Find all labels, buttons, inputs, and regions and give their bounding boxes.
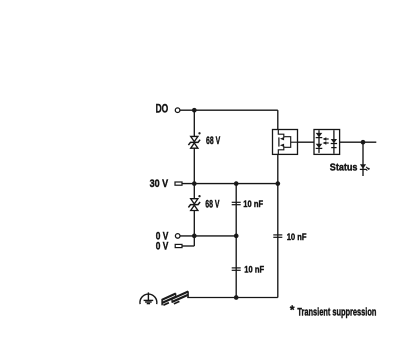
- svg-text:0 V: 0 V: [156, 240, 169, 252]
- optocoupler box: [314, 130, 340, 155]
- status LED: [360, 164, 370, 170]
- terminal 0V upper (open circle): [175, 234, 180, 239]
- junction 0V x left vertical: [192, 234, 197, 239]
- junction 30V x left vertical: [192, 181, 197, 186]
- svg-text:68 V: 68 V: [206, 135, 221, 147]
- wire status vertical: [362, 142, 364, 176]
- svg-text:Status: Status: [330, 162, 358, 173]
- asterisk marker upper TVS: [198, 132, 200, 134]
- wire 0V upper horizontal: [180, 235, 236, 237]
- TVS suppressor diode 68V upper: [188, 136, 200, 148]
- junction bottom x middle vertical: [234, 295, 239, 300]
- wire DO corner down to switch: [277, 110, 279, 129]
- earth ground symbol: [140, 292, 157, 304]
- wire bottom horizontal: [187, 297, 278, 299]
- wire middle vertical 30V to bottom: [235, 184, 237, 298]
- capacitor C1 plates: [232, 202, 241, 204]
- junction 30V x middle vertical: [234, 181, 239, 186]
- wire left vertical DO to 0V: [193, 110, 195, 246]
- wire 30V horizontal: [182, 183, 278, 185]
- junction 30V x right vertical: [275, 181, 280, 186]
- svg-text:68 V: 68 V: [205, 198, 220, 210]
- svg-text:30 V: 30 V: [150, 178, 169, 190]
- svg-text:Transient suppression: Transient suppression: [297, 307, 376, 319]
- wire DO horizontal: [180, 109, 278, 111]
- junction DO node: [192, 108, 197, 113]
- asterisk marker lower TVS: [198, 195, 200, 197]
- junction status branch: [361, 140, 366, 145]
- wire 0V lower to left vertical: [182, 245, 194, 247]
- DIN rail symbol: [162, 291, 188, 305]
- capacitor C2 plates: [273, 235, 282, 237]
- terminal 30V (square): [175, 182, 182, 185]
- svg-text:*: *: [290, 303, 295, 317]
- svg-text:DO: DO: [156, 103, 169, 116]
- svg-text:10 nF: 10 nF: [287, 232, 307, 242]
- output transistor symbol: [278, 130, 297, 155]
- wire gate to optocoupler: [298, 141, 315, 143]
- wire right vertical switch to bottom: [277, 154, 279, 297]
- TVS suppressor diode 68V lower: [188, 199, 200, 211]
- terminal DO (open circle): [175, 108, 180, 113]
- svg-text:10 nF: 10 nF: [244, 264, 264, 274]
- capacitor C3 plates: [232, 268, 241, 270]
- svg-text:10 nF: 10 nF: [243, 199, 263, 209]
- optocoupler light arrows: [323, 137, 329, 144]
- optocoupler photodiode: [331, 130, 337, 154]
- wire optocoupler output: [340, 141, 377, 143]
- junction 0V x middle vertical: [234, 234, 239, 239]
- output switch transistor box: [273, 130, 298, 155]
- terminal 0V lower (square): [175, 244, 182, 247]
- optocoupler LED chain: [316, 130, 323, 153]
